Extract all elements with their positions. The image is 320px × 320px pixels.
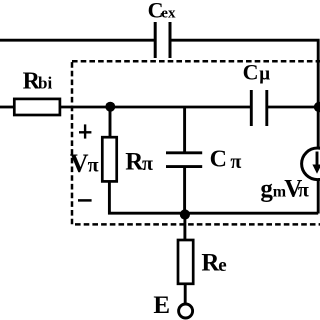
wire middle from Rbi to Cmu: [60, 106, 250, 109]
svg-text:ex: ex: [161, 5, 176, 21]
wire from Rpi down and bottom wire to right edge: [109, 181, 318, 213]
label Cex: [148, 0, 176, 22]
node C junction dot (half cropped): [314, 102, 320, 112]
wire from node E' down to Re: [183, 215, 186, 241]
current source arrow: [312, 152, 320, 174]
label gmVpi: [260, 176, 309, 203]
current source gmVpi (circle cropped at right edge): [302, 148, 320, 180]
capacitor Cmu: [251, 90, 266, 126]
svg-text:C: C: [243, 60, 259, 85]
svg-text:bi: bi: [38, 73, 52, 92]
wire from Cpi down to bottom node: [183, 167, 186, 214]
wire top from left edge to Cex: [0, 39, 154, 42]
wire from Re down to terminal E: [184, 284, 187, 305]
svg-text:C: C: [210, 146, 227, 172]
resistor Re: [178, 240, 193, 284]
capacitor Cpi: [166, 153, 202, 167]
svg-text:π: π: [230, 151, 241, 173]
label Rpi: [125, 149, 153, 176]
label Cpi: [210, 146, 242, 173]
svg-text:π: π: [88, 155, 99, 177]
svg-text:e: e: [218, 255, 226, 276]
node E' junction dot: [180, 209, 190, 219]
node B' junction dot: [105, 102, 115, 112]
terminal E open circle: [179, 304, 193, 318]
label Vpi: [70, 149, 99, 178]
svg-text:E: E: [153, 292, 170, 319]
wire middle from Cmu to right wire: [268, 106, 318, 109]
wire below current source to bottom wire: [317, 179, 320, 214]
wire middle left from edge to Rbi: [0, 106, 15, 109]
label - (polarity minus): [78, 199, 92, 202]
svg-text:V: V: [70, 149, 89, 178]
svg-text:μ: μ: [259, 64, 270, 85]
capacitor Cex: [155, 22, 170, 58]
wire top right with corner down right edge: [171, 40, 318, 149]
wire from node B' down to Rpi: [109, 107, 112, 138]
resistor Rpi: [102, 137, 116, 181]
wire from top wire down to Cpi: [183, 107, 186, 152]
svg-text:π: π: [142, 153, 153, 175]
resistor Rbi: [14, 99, 60, 115]
svg-text:π: π: [298, 180, 309, 202]
label Rbi: [23, 68, 53, 94]
label Cmu: [243, 60, 271, 85]
label + (polarity plus): [79, 124, 91, 138]
dashed box (intrinsic transistor boundary, right side cropped): [72, 61, 320, 224]
label Re: [201, 250, 226, 277]
svg-text:g: g: [260, 176, 273, 203]
